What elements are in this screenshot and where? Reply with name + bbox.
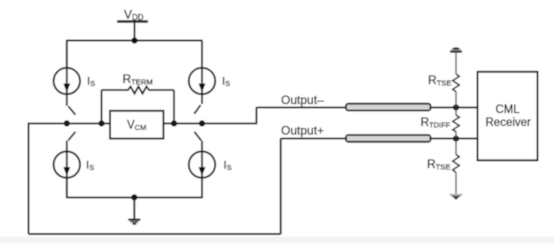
wire VDD stem bbox=[134, 22, 136, 41]
VCM box U1 bbox=[110, 111, 163, 139]
node RTERM right junction bbox=[171, 120, 177, 126]
wire Output- step riser bbox=[255, 107, 257, 123]
wire left branch top bbox=[66, 41, 68, 69]
wire RTERM right lead down bbox=[173, 90, 175, 123]
wire mid rail right bbox=[163, 122, 257, 124]
switch blade bottom-left bbox=[68, 132, 75, 141]
wire outer bottom bbox=[29, 233, 281, 235]
wire RTDIFF bottom lead bbox=[455, 132, 457, 139]
current source I_S (top-left) bbox=[54, 68, 80, 94]
wire RTSE top lead bbox=[455, 53, 457, 75]
svg-text:Output+: Output+ bbox=[281, 123, 324, 137]
switch blade top-left bbox=[68, 106, 75, 115]
wire Output+ after tline bbox=[431, 138, 478, 140]
node right output junction bbox=[199, 120, 205, 126]
termination symbol top bbox=[450, 47, 462, 52]
resistor RTSE (top) bbox=[453, 74, 460, 92]
node left output junction bbox=[64, 120, 70, 126]
wire right branch top bbox=[201, 41, 203, 69]
bottom scan band bbox=[0, 237, 554, 244]
wire below top-left source bbox=[66, 94, 68, 106]
current source I_S (top-right) bbox=[189, 68, 215, 94]
wire RTSE top to node bbox=[455, 92, 457, 108]
svg-text:Output–: Output– bbox=[281, 93, 324, 107]
wire top rail bbox=[66, 40, 202, 42]
node VDD junction bbox=[131, 37, 137, 43]
wire Output- after tline bbox=[431, 106, 478, 108]
wire RTDIFF top lead bbox=[455, 107, 457, 115]
wire Output+ line to tline bbox=[281, 138, 347, 140]
node ground junction bbox=[131, 194, 137, 200]
VDD label bbox=[124, 8, 144, 23]
resistor RTERM bbox=[102, 87, 175, 94]
switch blade top-right bbox=[194, 105, 200, 114]
wire Output- line to tline bbox=[256, 106, 346, 108]
wire bottom bridge rail bbox=[66, 196, 203, 198]
transmission line (bottom) bbox=[346, 135, 431, 142]
current source I_S (bottom-right) bbox=[189, 151, 215, 177]
wire RTSE bottom top lead bbox=[455, 139, 457, 155]
current source I_S (bottom-left) bbox=[54, 151, 80, 177]
wire ground stem bbox=[133, 197, 135, 219]
node Output- termination junction bbox=[453, 104, 459, 110]
wire above bottom-right source bbox=[201, 141, 203, 152]
wire Output+ riser bbox=[280, 139, 282, 234]
transmission line (top) bbox=[346, 104, 431, 111]
node Output+ termination junction bbox=[453, 136, 459, 142]
node RTERM left junction bbox=[98, 120, 104, 126]
resistor RTDIFF bbox=[453, 115, 460, 132]
VDD bar bbox=[117, 20, 148, 22]
switch blade bottom-right bbox=[194, 132, 201, 141]
resistor RTSE (bottom) bbox=[453, 155, 460, 173]
wire below bottom-right source bbox=[201, 178, 203, 198]
wire mid rail left bbox=[29, 122, 111, 124]
wire RTERM left lead down bbox=[101, 90, 103, 123]
CML Receiver box U2 bbox=[478, 72, 538, 161]
wire above bottom-left source bbox=[66, 141, 68, 152]
wire below bottom-left source bbox=[66, 178, 68, 198]
ground bbox=[128, 220, 140, 224]
termination symbol bottom bbox=[450, 195, 463, 200]
wire RTSE bottom lead bbox=[455, 172, 457, 193]
svg-text:CML: CML bbox=[496, 104, 521, 116]
wire outer left vertical bbox=[28, 123, 30, 234]
svg-text:Receiver: Receiver bbox=[486, 117, 532, 129]
wire below top-right source bbox=[201, 94, 203, 104]
